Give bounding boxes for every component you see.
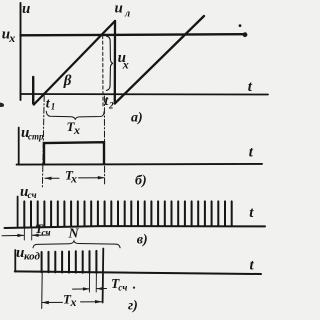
svg-text:u: u (22, 1, 30, 17)
svg-text:стр: стр (28, 131, 44, 141)
svg-text:г): г) (128, 299, 138, 314)
svg-text:x: x (70, 172, 77, 186)
svg-text:t: t (249, 205, 254, 221)
svg-text:л: л (124, 9, 130, 20)
svg-text:сч: сч (42, 228, 51, 238)
svg-text:x: x (122, 57, 129, 71)
svg-text:N: N (68, 227, 80, 242)
svg-text:x: x (70, 295, 77, 309)
svg-text:t: t (249, 145, 254, 161)
svg-text:а): а) (131, 111, 143, 126)
svg-text:в): в) (137, 233, 148, 248)
svg-text:б): б) (135, 174, 147, 189)
svg-text:β: β (63, 73, 72, 89)
svg-text:сч: сч (28, 191, 37, 201)
svg-text:сч: сч (118, 283, 127, 293)
svg-text:x: x (8, 31, 15, 45)
svg-text:1: 1 (51, 102, 56, 112)
svg-text:t: t (250, 258, 255, 274)
svg-text:код: код (24, 250, 41, 262)
svg-text:2: 2 (108, 101, 114, 111)
svg-text:u: u (115, 1, 123, 17)
svg-text:t: t (248, 79, 253, 95)
svg-text:x: x (73, 123, 80, 137)
